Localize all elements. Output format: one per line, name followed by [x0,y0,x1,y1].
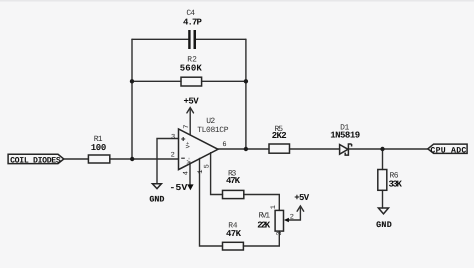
wire pin 7 to +5V [189,109,191,135]
svg-text:4: 4 [183,171,191,175]
wire R2 row right [202,80,246,82]
wire input row: COIL_DIODES to R1 [64,158,89,160]
net flag COIL_DIODES [8,154,64,165]
ground below R6 [376,208,392,230]
svg-text:V-: V- [186,157,193,164]
wire feedback right vertical [245,39,247,149]
svg-text:1: 1 [197,170,205,174]
wire pin 4 to -5V [189,163,191,184]
wire R3 to RV1 top [244,195,279,211]
svg-text:2: 2 [171,152,175,160]
wire pin 5 down to R3 [211,153,223,195]
svg-text:3: 3 [171,133,175,141]
svg-text:GND: GND [149,194,164,204]
resistor R2 560K [180,56,203,86]
wire feedback top row (C4 row) [132,38,246,40]
svg-text:47K: 47K [226,229,242,239]
svg-text:+5V: +5V [294,193,309,203]
resistor R1 100 [88,135,109,163]
svg-text:560K: 560K [180,63,203,73]
junction R2/C4 right [244,79,248,83]
wire R6 to ground [382,190,384,208]
svg-text:TL081CP: TL081CP [197,126,228,135]
svg-text:6: 6 [222,141,226,149]
wire input row: R1 to inverting input pin 2 [110,158,179,160]
wire output row: D1 to CPU_ADC [348,148,427,150]
wire output row: R5 to D1 [290,148,340,150]
diode D1 1N5819 schottky [330,124,360,155]
resistor R4 47K [223,222,244,251]
junction D1/R6 node [380,147,384,151]
svg-text:COIL_DIODES: COIL_DIODES [10,156,61,165]
potentiometer RV1 22K [257,205,294,236]
svg-text:5: 5 [203,164,211,168]
power +5V above op-amp [184,96,200,113]
svg-text:RV1: RV1 [259,212,271,221]
op-amp U2 TL081CP [171,117,229,175]
resistor R3 47K [223,170,244,199]
svg-text:2K2: 2K2 [272,131,287,141]
power +5V at RV1 wiper [294,193,309,211]
svg-text:-5V: -5V [169,183,188,193]
wire R4 to RV1 bottom [243,231,279,246]
wire output row: pin 6 to R5 [218,148,269,150]
svg-text:7: 7 [183,124,191,128]
svg-text:V+: V+ [185,141,192,148]
svg-text:1: 1 [270,205,278,209]
wire pin 3 to ground [157,139,179,184]
svg-text:100: 100 [91,143,107,153]
svg-text:1N5819: 1N5819 [330,130,360,140]
wire R2 row left [132,80,181,82]
svg-text:2: 2 [290,213,294,221]
wire pin 1 down to R4 [200,158,223,246]
ground at op-amp + input [149,184,164,205]
svg-text:4.7P: 4.7P [183,17,202,27]
svg-text:CPU_ADC: CPU_ADC [430,146,466,155]
svg-text:U2: U2 [206,117,215,126]
junction input node [130,157,134,161]
svg-text:47K: 47K [226,176,241,186]
svg-text:33K: 33K [389,180,403,190]
wire D1 node down to R6 [382,149,384,170]
wire feedback left vertical [131,39,133,159]
junction output node [244,147,248,151]
resistor R6 33K (vertical) [378,170,403,191]
power -5V below op-amp [169,183,193,193]
capacitor C4 [183,9,202,49]
net flag CPU_ADC [428,144,467,155]
wire RV1 wiper to +5V [289,208,301,220]
resistor R5 2K2 [269,125,290,153]
svg-text:+5V: +5V [184,96,200,106]
junction R2/C4 left [130,79,134,83]
svg-text:22K: 22K [257,221,270,231]
svg-text:GND: GND [376,220,392,230]
svg-text:3: 3 [276,231,284,235]
